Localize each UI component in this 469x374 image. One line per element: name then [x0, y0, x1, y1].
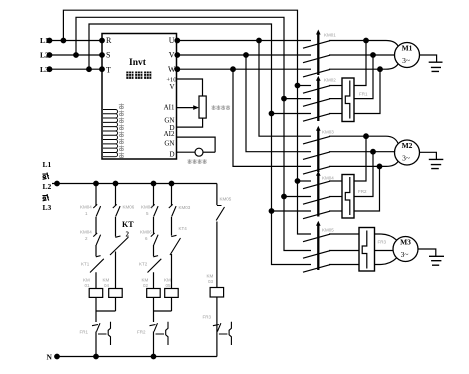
wire +10 terminal to potentiometer top — [177, 79, 203, 96]
wire KM04 pole3 to FR2 — [329, 210, 342, 212]
svg-text:KM04: KM04 — [80, 230, 92, 235]
svg-text:GN: GN — [164, 139, 174, 147]
wire KM05 pole2 to FR3 — [329, 250, 359, 252]
svg-text:3~: 3~ — [401, 250, 409, 259]
thermal relay FR2 body — [342, 175, 354, 219]
contactor KM02 linkage bar — [317, 80, 319, 121]
contact KM NC branch4 upper — [169, 204, 176, 216]
wire AI2 loop top — [177, 137, 216, 152]
wire AI2 loop bottom right — [203, 151, 215, 153]
junction M2 phase3 bypass — [377, 164, 382, 169]
inductor braking coil inside inverter — [103, 110, 118, 157]
wire L2 input to S — [50, 54, 103, 56]
svg-text:KM02: KM02 — [324, 78, 336, 83]
control bus wire (L1/L2/L3 phase) — [52, 183, 217, 185]
junction branch1 at N — [94, 354, 99, 359]
node control bus start — [55, 181, 60, 186]
contact KT timer branch2 — [110, 236, 128, 255]
svg-text:01: 01 — [85, 283, 91, 288]
wire mains bypass line 2 (L2 top bus) — [76, 17, 311, 250]
svg-text:L2: L2 — [43, 182, 52, 191]
wire AI1 wiper — [177, 107, 197, 109]
junction M2 phase2 bypass — [371, 149, 376, 154]
node L3 terminal dot — [47, 67, 52, 72]
svg-text:R: R — [106, 36, 112, 45]
node V terminal dot — [175, 53, 180, 58]
wire branch2 merge to branch1 — [96, 310, 116, 312]
wire FR2 out2 riser to M2 phase2 — [354, 152, 373, 197]
KM04 bar arrow — [316, 171, 321, 176]
wire mains drop3 to KM02 pole3 — [272, 113, 312, 115]
wire mains drop1 to KM04 pole1 — [298, 180, 312, 182]
svg-text:KM: KM — [164, 278, 171, 283]
gray label analog output — [188, 159, 192, 164]
svg-text:03: 03 — [208, 279, 214, 284]
ground E2 — [429, 159, 444, 168]
KM02 blade pole 2 — [303, 99, 330, 107]
wire mains drop1 to KM02 pole1 — [298, 85, 312, 87]
KM04 blade pole 2 — [303, 197, 330, 205]
junction KM04 pole2 — [282, 194, 287, 199]
KM02 blade pole 3 — [303, 114, 330, 122]
contact FR3 thermal NC — [213, 322, 232, 345]
contact KM NC branch1 second — [93, 233, 100, 245]
KM05 blade pole 3 — [303, 265, 330, 273]
contact KM NO branch5 — [216, 206, 224, 221]
wire AI2 loop bottom left — [177, 151, 196, 153]
junction branch3 — [151, 181, 156, 186]
contact KM NC branch3 second — [151, 233, 158, 245]
svg-text:L3: L3 — [40, 65, 49, 74]
wire KM05 pole3 to FR3 — [329, 264, 359, 266]
junction KM04 pole1 — [295, 179, 300, 184]
label 变频器 (inverter, glyphs) — [126, 72, 133, 79]
vertical gray note text inside inverter — [119, 104, 124, 159]
contactor KM04 linkage bar — [317, 175, 319, 217]
svg-text:M1: M1 — [402, 44, 413, 53]
svg-text:U: U — [169, 36, 175, 45]
wire KM03 pole3 out to motor M2 — [329, 161, 398, 166]
wire GND to potentiometer bottom — [177, 118, 203, 127]
KM05 bar arrow — [316, 221, 321, 226]
junction W tap — [231, 67, 236, 72]
svg-text:L1: L1 — [40, 36, 49, 45]
svg-text:KM06: KM06 — [140, 230, 152, 235]
wire mains drop3 to KM04 pole3 — [272, 210, 312, 212]
svg-text:KM05: KM05 — [220, 197, 232, 202]
wire KM01 pole1 out to motor M1 — [329, 41, 398, 47]
wire L1 input to R — [50, 40, 103, 42]
inverter U1 box (INVT frequency inverter) — [102, 34, 177, 160]
analog output meter circle — [195, 148, 203, 156]
junction L3 riser — [87, 67, 92, 72]
ground E1 — [429, 62, 443, 71]
wire FR2 out1 riser to M2 phase1 — [354, 136, 366, 181]
junction KM02 pole3 — [269, 111, 274, 116]
wire FR1 out2 riser to M1 phase2 — [354, 55, 373, 99]
KM03 blade pole 1 — [303, 136, 330, 144]
KM04 blade pole 1 — [303, 181, 330, 189]
svg-text:W: W — [168, 65, 176, 74]
svg-text:V: V — [169, 50, 175, 59]
wire KM02 pole2 to FR1 — [329, 98, 342, 100]
wire branch5 vertical — [216, 184, 218, 357]
svg-text:KM01: KM01 — [324, 33, 336, 38]
svg-text:L1: L1 — [43, 160, 52, 169]
wire mains bypass line 1 (L1 top bus) — [63, 10, 311, 234]
svg-text:S: S — [106, 51, 110, 60]
svg-text:FR1: FR1 — [80, 330, 89, 335]
contact KM NC branch2 upper — [113, 204, 120, 216]
motor M2 — [395, 140, 420, 165]
wire KM03 pole1 out to motor M2 — [329, 136, 398, 144]
wire FR1 out3 riser to M1 phase3 — [354, 69, 380, 113]
svg-text:KM: KM — [207, 274, 214, 279]
svg-text:KM04: KM04 — [322, 176, 334, 181]
FR3 heater element — [362, 231, 367, 269]
wire KM01 pole3 out to motor M1 — [329, 64, 398, 69]
junction V tap — [244, 53, 249, 58]
contact FR1 thermal NC — [92, 322, 111, 345]
KM02 bar arrow — [316, 76, 321, 81]
wire M1 to ground — [420, 55, 437, 62]
node S terminal dot — [100, 53, 105, 58]
thermal relay FR1 body — [342, 78, 354, 122]
wire U output to contactor KM01 — [177, 40, 312, 42]
svg-text:KT2: KT2 — [139, 262, 148, 267]
motor M3 — [393, 237, 418, 262]
svg-text:04: 04 — [104, 283, 110, 288]
label 或 (or) 2 — [42, 194, 48, 201]
KM03 bar arrow — [316, 126, 321, 131]
gray label frequency-set potentiometer — [212, 105, 216, 110]
wire branch2 vertical — [115, 184, 117, 312]
svg-text:T: T — [106, 66, 111, 75]
junction M1 phase2 bypass — [371, 53, 376, 58]
wire V output to contactor KM01 — [177, 54, 312, 56]
junction M1 phase3 bypass — [378, 67, 383, 72]
wire branch4 vertical — [171, 184, 173, 312]
svg-text:FR3: FR3 — [378, 240, 387, 245]
potentiometer RP1 (frequency setting) — [199, 96, 206, 118]
wire FR3 out3 to motor M3 — [375, 258, 397, 265]
contactor KM05 linkage bar — [317, 225, 319, 270]
KM03 blade pole 2 — [303, 152, 330, 160]
svg-text:M3: M3 — [400, 238, 411, 247]
wire FR2 out3 riser to M2 phase3 — [354, 166, 380, 211]
wire KM02 pole1 to FR1 — [329, 85, 342, 87]
FR2 heater element — [345, 177, 350, 215]
svg-text:2: 2 — [126, 231, 130, 239]
wiper arrowhead — [193, 105, 199, 110]
motor M1 — [395, 43, 420, 68]
svg-text:KM03: KM03 — [179, 205, 191, 210]
wire branch4 merge to branch3 — [154, 310, 172, 312]
wire KM04 pole1 to FR2 — [329, 180, 342, 182]
contact FR2 thermal NC — [150, 322, 169, 345]
svg-text:AI2: AI2 — [164, 130, 175, 138]
svg-text:N: N — [47, 353, 53, 362]
wire KM02 pole3 to FR1 — [329, 113, 342, 115]
wire N bus — [57, 356, 217, 358]
svg-text:L3: L3 — [43, 203, 52, 212]
label 或 (or) 1 — [42, 173, 48, 180]
svg-text:L2: L2 — [40, 51, 49, 60]
KM01 blade pole 2 — [303, 55, 330, 63]
coil KM02 — [147, 289, 161, 298]
wire FR3 out2 to motor M3 — [375, 250, 394, 252]
svg-text:KM03: KM03 — [322, 130, 334, 135]
svg-text:D: D — [169, 151, 174, 159]
contactor KM01 linkage bar — [317, 34, 319, 75]
KM03 blade pole 3 — [303, 167, 330, 175]
wire L3 input to T — [50, 68, 103, 70]
wire M2 to ground — [420, 152, 437, 159]
junction KM02 pole2 — [282, 96, 287, 101]
coil KM05 — [165, 289, 179, 298]
FR1 heater element — [345, 81, 350, 119]
svg-text:AI1: AI1 — [164, 103, 175, 111]
KM04 blade pole 3 — [303, 211, 330, 219]
junction branch4 — [169, 181, 174, 186]
coil KM04 — [109, 289, 123, 298]
svg-text:05: 05 — [166, 283, 172, 288]
wire branch3 vertical — [153, 184, 155, 357]
junction U tap — [257, 38, 262, 43]
svg-text:FR3: FR3 — [203, 315, 212, 320]
svg-text:KT1: KT1 — [81, 262, 90, 267]
contactor KM03 linkage bar — [317, 130, 319, 172]
junction L2 riser — [74, 53, 79, 58]
wire FR3 out1 to motor M3 — [375, 234, 397, 240]
svg-text:KM: KM — [142, 278, 149, 283]
node T terminal dot — [100, 67, 105, 72]
junction branch1 — [94, 181, 99, 186]
contact KM NC branch3 upper — [151, 204, 158, 216]
wire KM04 pole2 to FR2 — [329, 196, 342, 198]
wire FR1 out1 riser to M1 phase1 — [354, 41, 366, 86]
junction branch3 at N — [151, 354, 156, 359]
KM02 blade pole 1 — [303, 86, 330, 94]
svg-text:KM04: KM04 — [80, 205, 92, 210]
svg-text:02: 02 — [143, 283, 149, 288]
svg-text:FR1: FR1 — [359, 92, 368, 97]
wire W output to contactor KM01 — [177, 68, 312, 70]
svg-text:KM06: KM06 — [123, 205, 135, 210]
svg-text:KM04: KM04 — [141, 205, 153, 210]
contact KT1 branch1 — [90, 256, 104, 273]
junction L1 riser — [61, 38, 66, 43]
wire M3 to ground — [418, 249, 436, 256]
KM01 bar arrow — [316, 30, 321, 35]
contact KM NC branch1 upper — [93, 204, 100, 216]
svg-text:FR2: FR2 — [137, 330, 146, 335]
node N start — [55, 354, 60, 359]
junction KM02 pole1 — [295, 83, 300, 88]
svg-text:KM: KM — [103, 278, 110, 283]
junction branch2 — [113, 181, 118, 186]
wire V tap down to KM03 pole 2 — [246, 55, 311, 152]
KM05 blade pole 1 — [303, 234, 330, 242]
svg-text:KM: KM — [83, 278, 90, 283]
node L1 terminal dot — [47, 38, 52, 43]
node L2 terminal dot — [47, 53, 52, 58]
node W terminal dot — [175, 67, 180, 72]
svg-text:3~: 3~ — [402, 56, 410, 65]
wire KM01 pole2 out to motor M1 — [329, 54, 395, 56]
KM01 blade pole 3 — [303, 69, 330, 77]
KM05 blade pole 2 — [303, 251, 330, 259]
wire KM05 pole1 to FR3 — [329, 233, 359, 235]
node R terminal dot — [100, 38, 105, 43]
junction M2 phase1 bypass — [364, 134, 369, 139]
coil KM01 — [89, 289, 103, 298]
svg-text:FR2: FR2 — [358, 189, 367, 194]
svg-text:KT: KT — [122, 220, 134, 229]
thermal relay FR3 body — [359, 228, 375, 272]
junction KM04 pole3 — [269, 209, 274, 214]
junction M1 phase1 bypass — [364, 38, 369, 43]
wire mains drop2 to KM02 pole2 — [284, 98, 311, 100]
ground E3 — [429, 256, 444, 265]
node U terminal dot — [175, 38, 180, 43]
contact KT timer branch4 — [170, 235, 181, 255]
svg-text:KM05: KM05 — [322, 228, 334, 233]
svg-text:V: V — [169, 83, 174, 91]
svg-text:KT4: KT4 — [179, 226, 188, 231]
coil KM03 — [210, 288, 224, 298]
wire branch1 vertical — [95, 184, 97, 357]
KM01 blade pole 1 — [303, 41, 330, 49]
wire mains drop2 to KM04 pole2 — [284, 196, 311, 198]
wire U tap down to KM03 pole 1 — [259, 41, 311, 137]
svg-text:Invt: Invt — [129, 58, 147, 68]
svg-text:M2: M2 — [402, 141, 413, 150]
svg-text:3~: 3~ — [402, 154, 410, 163]
wire mains bypass line 3 (L3 top bus) — [89, 24, 311, 265]
wire KM03 pole2 out to motor M2 — [329, 151, 395, 153]
wire W tap down to KM03 pole 3 — [233, 69, 311, 166]
contact KT2 branch3 — [148, 256, 162, 273]
